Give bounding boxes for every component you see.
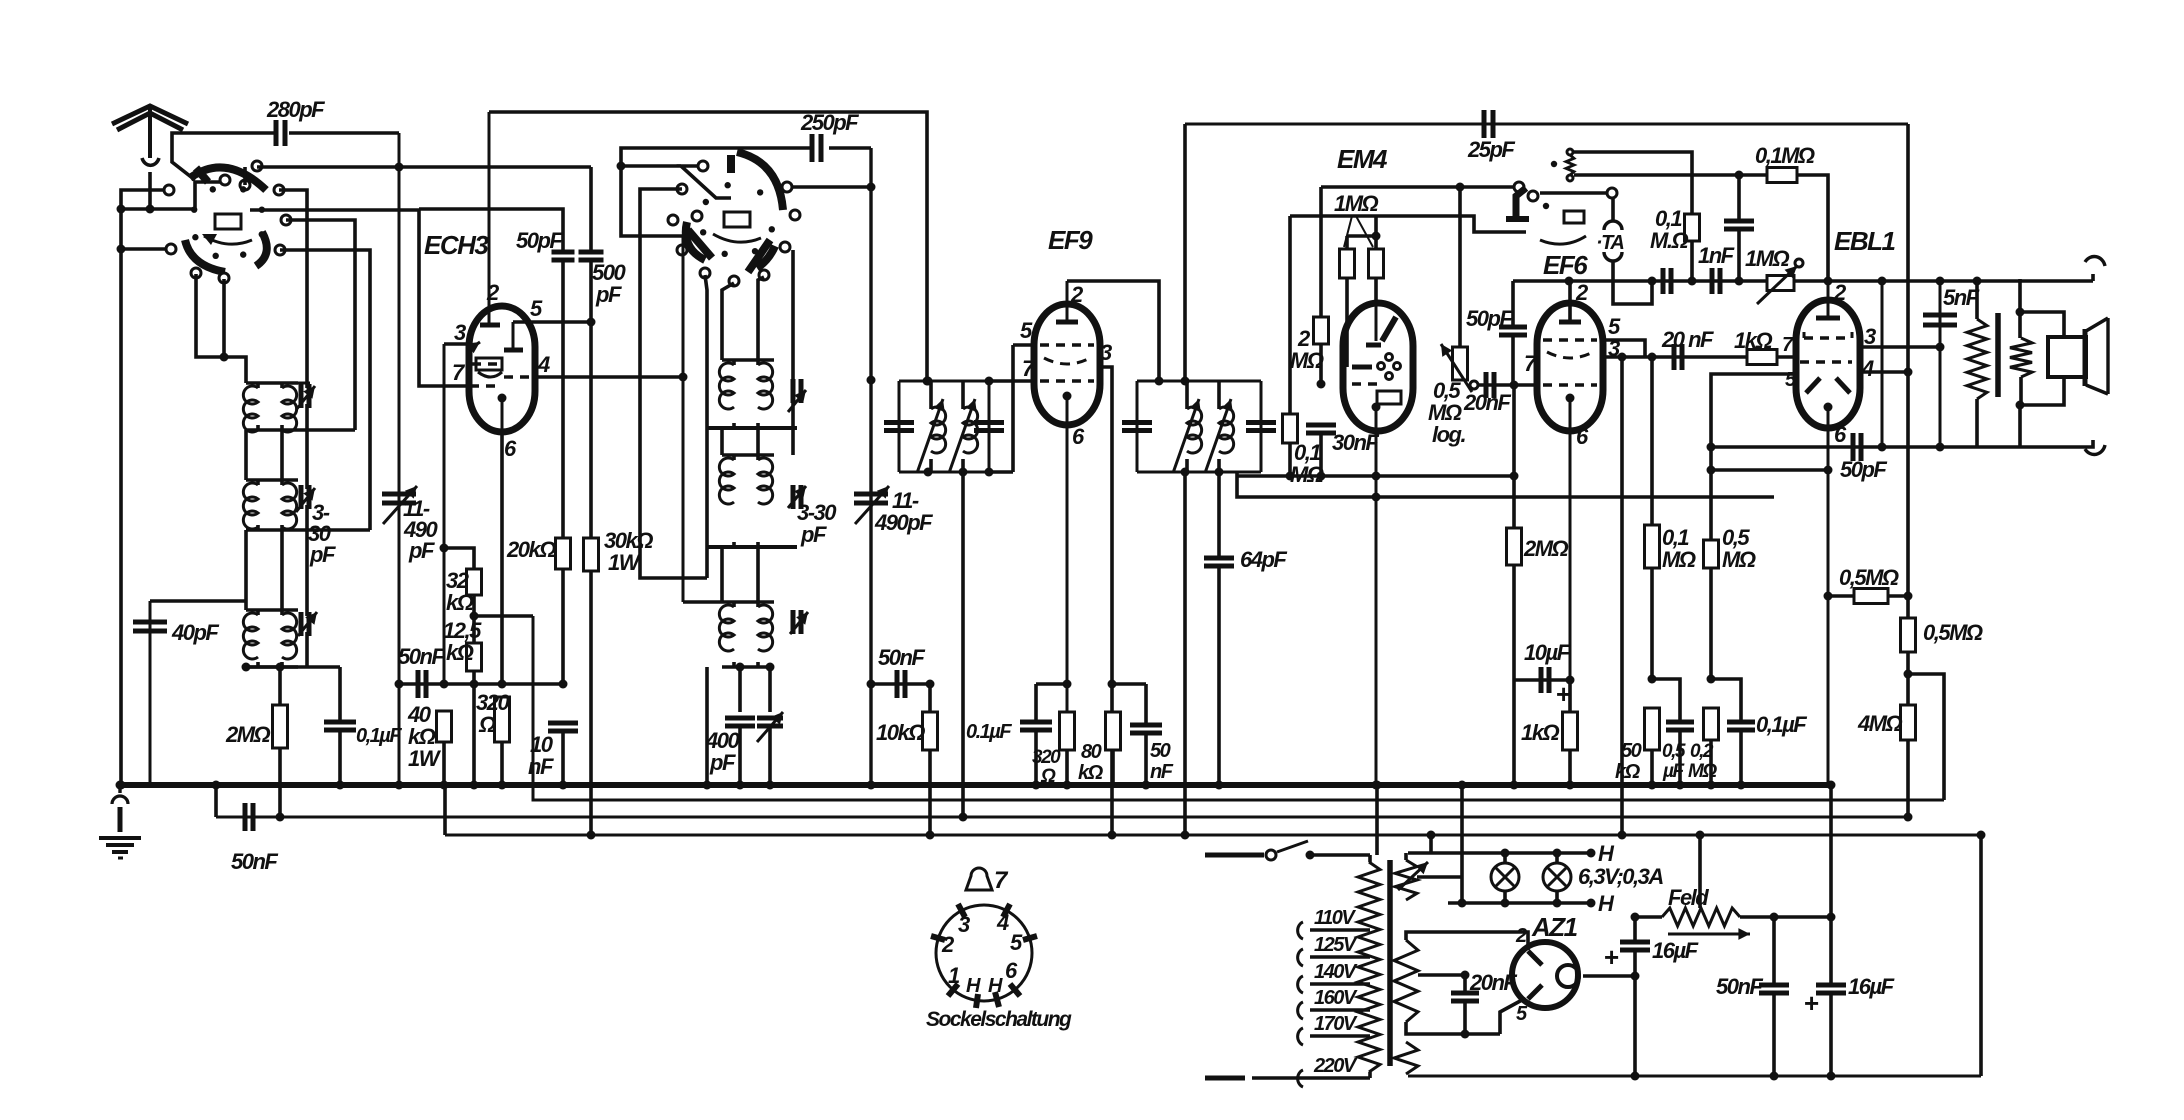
svg-text:1kΩ: 1kΩ bbox=[1521, 720, 1559, 745]
svg-text:0,1MΩ: 0,1MΩ bbox=[1755, 143, 1815, 168]
resistor 1M left bbox=[1340, 236, 1355, 367]
EBL1 pin5 wire bbox=[1707, 374, 1798, 540]
wire bus line 4 bbox=[445, 834, 1981, 837]
ECH3 pin 5 bbox=[504, 296, 596, 350]
svg-text:20kΩ: 20kΩ bbox=[506, 537, 556, 562]
transformer core bbox=[1387, 860, 1393, 1066]
capacitor 280pF bbox=[172, 97, 399, 180]
svg-text:4: 4 bbox=[537, 352, 550, 377]
wire S1 contact tap 1 bbox=[279, 190, 307, 388]
wire AF grid line bbox=[1513, 277, 2093, 286]
output transformer primary bbox=[1967, 281, 1987, 447]
svg-text:2MΩ: 2MΩ bbox=[225, 722, 271, 747]
svg-text:H: H bbox=[988, 975, 1003, 997]
resistor 80k bbox=[1078, 712, 1121, 785]
junction bus-L5 start bbox=[443, 785, 447, 835]
wire EM4 bottom rail bbox=[1237, 472, 1519, 481]
svg-text:30nF: 30nF bbox=[1332, 430, 1379, 455]
svg-text:170V: 170V bbox=[1314, 1013, 1358, 1035]
svg-text:2MΩ: 2MΩ bbox=[1523, 536, 1569, 561]
svg-text:250pF: 250pF bbox=[800, 110, 859, 135]
coil antenna L2 pair bbox=[243, 480, 298, 530]
capacitor 400pF bbox=[705, 667, 755, 790]
svg-text:EF9: EF9 bbox=[1048, 225, 1093, 255]
band switch S1 bbox=[164, 161, 291, 283]
svg-text:50: 50 bbox=[1150, 740, 1171, 762]
wire Feld to caps bbox=[1740, 913, 1836, 922]
EM4 ray electrodes bbox=[1378, 354, 1401, 380]
capacitor 16uF (2nd) bbox=[1804, 917, 1895, 1081]
capacitor 30nF bbox=[1306, 425, 1379, 481]
wire bus right ends bbox=[1827, 781, 1836, 790]
wire EM4 anode rail bbox=[1321, 182, 1524, 192]
wire ECH3 g4 line bbox=[440, 344, 449, 689]
svg-text:490pF: 490pF bbox=[874, 510, 933, 535]
tap 220V bbox=[1205, 1055, 1370, 1087]
external speaker hook bottom bbox=[1977, 440, 2105, 454]
heater tap arrow bbox=[1398, 862, 1428, 890]
tap 140V bbox=[1298, 961, 1370, 993]
capacitor 20nF (AZ1) bbox=[1451, 970, 1517, 1039]
wire switch stub left lower bbox=[117, 245, 172, 254]
ECH3 cathode pin 6 bbox=[498, 394, 518, 462]
wire S1 contact tap 2 bbox=[286, 220, 355, 430]
tube EBL1 label bbox=[1834, 226, 1896, 256]
svg-text:140V: 140V bbox=[1314, 961, 1358, 983]
wire EF9 pin3 out bbox=[1100, 367, 1117, 840]
HV bottom wire bbox=[1406, 1000, 1522, 1034]
wire EF9 pin5 down bbox=[1011, 345, 1015, 472]
resistor 40k 1W bbox=[407, 702, 452, 790]
EBL1 pin3 wire bbox=[1860, 343, 1945, 352]
svg-text:25pF: 25pF bbox=[1467, 137, 1515, 162]
svg-text:10µF: 10µF bbox=[1524, 640, 1571, 665]
svg-text:M.Ω: M.Ω bbox=[1650, 228, 1688, 253]
trimmer 3-30pF bbox=[296, 485, 336, 567]
resistor 1k (EF6 cath) bbox=[1521, 680, 1578, 790]
capacitor (fb) bbox=[1724, 175, 1754, 286]
resistor 32k bbox=[444, 548, 482, 621]
wire to L2 end bbox=[1908, 674, 1944, 800]
potentiometer 1M bbox=[1745, 246, 1803, 304]
resistor 0.1M (screen) bbox=[1650, 206, 1700, 286]
wire PSU bottom rail bbox=[1408, 831, 1986, 1077]
capacitor 5nF bbox=[1923, 281, 1980, 447]
svg-text:AZ1: AZ1 bbox=[1531, 912, 1578, 942]
wire antenna tap bbox=[117, 182, 223, 214]
wire 280pF node vertical bbox=[395, 133, 404, 790]
tube EF6 label bbox=[1543, 250, 1588, 280]
rectifier AZ1 bbox=[1512, 912, 1579, 1025]
svg-text:1: 1 bbox=[948, 963, 960, 988]
svg-text:0,5MΩ: 0,5MΩ bbox=[1923, 620, 1983, 645]
capacitor 1nF bbox=[1698, 243, 1735, 294]
svg-text:0,1µF: 0,1µF bbox=[1756, 712, 1807, 737]
wire trimmer column bbox=[305, 404, 309, 667]
svg-text:20nF: 20nF bbox=[1463, 390, 1511, 415]
speaker bbox=[2048, 318, 2108, 394]
capacitor 50nF (AVC) bbox=[398, 644, 561, 698]
EF6 pin 2 bbox=[1559, 280, 1589, 322]
svg-text:3: 3 bbox=[958, 912, 970, 937]
wire heater drop 1 bbox=[1427, 831, 1436, 854]
svg-text:4: 4 bbox=[1861, 356, 1874, 381]
svg-text:pF: pF bbox=[800, 522, 827, 547]
svg-text:EBL1: EBL1 bbox=[1834, 226, 1896, 256]
resistor 0.5M (diode 2) bbox=[1704, 525, 1756, 684]
EBL1 pin 2 bbox=[1816, 277, 1847, 319]
svg-text:40pF: 40pF bbox=[171, 620, 219, 645]
svg-text:0.1µF: 0.1µF bbox=[966, 721, 1012, 743]
EF6 pin7 dashes bbox=[1524, 351, 1597, 385]
resistor 1k (EBL1 grid) bbox=[1734, 328, 1797, 391]
wire EBL1 cath-470 bbox=[1711, 466, 1833, 475]
svg-text:MΩ: MΩ bbox=[1688, 761, 1717, 782]
svg-text:0,5: 0,5 bbox=[1662, 741, 1686, 762]
wire T1 bottom rail ext bbox=[985, 468, 1014, 477]
svg-text:1MΩ: 1MΩ bbox=[1334, 191, 1379, 216]
capacitor 0.1uF (AF) bbox=[1711, 679, 1807, 790]
variable capacitor 11-490pF bbox=[382, 486, 438, 563]
filament winding AZ1 bbox=[1394, 1042, 1418, 1074]
trimmer C L3 bbox=[298, 612, 317, 636]
resistor 0.2M bbox=[1688, 708, 1719, 790]
IF transformer T1 bbox=[884, 377, 1004, 477]
svg-text:pF: pF bbox=[408, 538, 435, 563]
ground bbox=[99, 781, 141, 859]
capacitor 40pF bbox=[133, 601, 246, 785]
ECH3 pin 2 bbox=[480, 112, 500, 325]
HV winding bbox=[1394, 940, 1470, 1022]
wire S1 contact right to ECH3 g1 bbox=[250, 210, 469, 386]
EBL1 grid dashes bbox=[1804, 324, 1876, 349]
antenna bbox=[112, 106, 188, 209]
svg-text:4MΩ: 4MΩ bbox=[1857, 711, 1903, 736]
svg-text:16µF: 16µF bbox=[1848, 974, 1895, 999]
svg-text:H: H bbox=[966, 975, 981, 997]
wire S2 left contact line bbox=[640, 189, 707, 578]
ECH3 grid dashes bbox=[472, 362, 502, 365]
capacitor 64pF bbox=[1204, 472, 1287, 790]
svg-text:50nF: 50nF bbox=[231, 849, 278, 874]
EBL1 pin7 dashes bbox=[1800, 360, 1852, 363]
wire S1 to grid line bbox=[257, 165, 591, 169]
EF9 grid dashes 5 bbox=[1013, 318, 1094, 345]
svg-text:16µF: 16µF bbox=[1652, 938, 1699, 963]
wire pin3 branch down bbox=[1618, 357, 1627, 840]
resistor 30k 1W bbox=[584, 528, 654, 840]
EBL1 cathode bbox=[1824, 403, 1848, 786]
wire osc feedback vertical bbox=[867, 148, 876, 790]
svg-text:nF: nF bbox=[1150, 761, 1174, 783]
trimmer 400pF parallel bbox=[757, 667, 783, 790]
svg-text:1nF: 1nF bbox=[1698, 243, 1735, 268]
svg-text:20 nF: 20 nF bbox=[1661, 327, 1714, 352]
capacitor TA coupling bbox=[1663, 268, 1671, 294]
EM4 deflector bbox=[1377, 391, 1401, 404]
trimmer C osc3 bbox=[790, 610, 808, 634]
wire L2 feed bbox=[474, 614, 533, 618]
resistor 4M bbox=[1857, 674, 1916, 822]
tube EBL1 envelope bbox=[1796, 300, 1860, 428]
svg-text:nF: nF bbox=[528, 754, 554, 779]
resistor 0.1M (fb) bbox=[1574, 143, 1828, 281]
svg-text:pF: pF bbox=[595, 282, 622, 307]
output transformer core bbox=[1995, 313, 2001, 397]
wire L2-L3 join bbox=[246, 530, 282, 610]
EF9 pin 7 dashes bbox=[1022, 356, 1094, 381]
EF6 pin5 stub bbox=[1603, 340, 1645, 357]
svg-text:2: 2 bbox=[1515, 925, 1527, 947]
resistor 50k bbox=[1615, 708, 1660, 790]
EF6 cathode bbox=[1566, 394, 1590, 685]
capacitor 0.1uF (EF9) bbox=[966, 684, 1067, 790]
svg-text:5nF: 5nF bbox=[1943, 285, 1980, 310]
svg-text:pF: pF bbox=[309, 542, 336, 567]
band switch S2 bbox=[668, 152, 800, 286]
capacitor 50nF (EF9 screen) bbox=[1112, 684, 1174, 790]
capacitor 20nF (EF6 grid) bbox=[1463, 372, 1538, 415]
EF9 cathode bbox=[1063, 392, 1086, 450]
EF6 grid dashes bbox=[1543, 314, 1621, 340]
EBL1 diode plates bbox=[1806, 356, 1874, 393]
svg-text:50: 50 bbox=[1621, 740, 1642, 762]
svg-text:MΩ: MΩ bbox=[1662, 547, 1696, 572]
capacitor 20nF (EBL1 grid) bbox=[1661, 327, 1714, 370]
capacitor 50nF (osc coupling) bbox=[871, 645, 935, 698]
external speaker hook top bbox=[2085, 257, 2105, 281]
svg-text:1W: 1W bbox=[608, 550, 642, 575]
EM4 cathode dot bbox=[1372, 403, 1381, 790]
trimmer C L1 bbox=[295, 383, 315, 410]
coil antenna L1 pair bbox=[196, 274, 298, 432]
capacitor 10uF bbox=[1514, 640, 1571, 709]
ECH3 pin 7 bbox=[452, 360, 500, 386]
capacitor 10nF bbox=[528, 723, 578, 790]
ECH3 pin 4 bbox=[504, 352, 688, 382]
wire heater drop 2 bbox=[1458, 781, 1467, 904]
EF6 suppressor bbox=[1547, 336, 1620, 361]
ECH3 hexode box bbox=[476, 358, 502, 377]
wire S2 contact to coil column bbox=[705, 275, 707, 428]
wire AVC line bbox=[1237, 472, 1774, 502]
wire T2 left branch to L5 bbox=[1181, 472, 1190, 840]
svg-text:1kΩ: 1kΩ bbox=[1734, 328, 1772, 353]
capacitor 50pF (EBL1 cath) bbox=[1711, 433, 1977, 482]
resistor 0.5M horizontal bbox=[1828, 565, 1908, 604]
tap 160V bbox=[1298, 987, 1370, 1019]
wire AZ1 output bbox=[1583, 972, 1640, 981]
svg-text:MΩ: MΩ bbox=[1290, 348, 1324, 373]
wire B+ rail top bbox=[1185, 123, 1908, 126]
svg-text:MΩ: MΩ bbox=[1722, 547, 1756, 572]
wire EF9 anode to T2 bbox=[1067, 281, 1164, 386]
resistor 2M&#937; bbox=[225, 667, 288, 822]
svg-text:64pF: 64pF bbox=[1240, 547, 1287, 572]
resistor 0.1M (EM4) bbox=[1283, 216, 1324, 487]
wire lamp bottom bbox=[1448, 899, 1591, 908]
wire L1-L2 join bbox=[246, 430, 282, 480]
EM4 grid dash bbox=[1352, 382, 1378, 385]
svg-text:0,2: 0,2 bbox=[1690, 741, 1714, 762]
resistor 320R bbox=[476, 432, 510, 790]
svg-text:·TA: ·TA bbox=[1596, 232, 1623, 254]
EBL1 pin4 wire bbox=[1860, 368, 1913, 377]
EM4 cathode bar bbox=[1352, 365, 1372, 370]
tap 110V bbox=[1298, 907, 1370, 939]
svg-text:log.: log. bbox=[1432, 422, 1465, 447]
wire bus line 3 (from 50nF) bbox=[216, 816, 1908, 819]
coil antenna L3 pair bbox=[243, 610, 298, 667]
svg-text:3: 3 bbox=[1100, 340, 1112, 365]
capacitor 500pF bbox=[579, 167, 627, 538]
fuse/choke EF6 anode bbox=[1566, 149, 1574, 181]
svg-text:Feld: Feld bbox=[1668, 885, 1709, 910]
capacitor 50nF (antenna) bbox=[231, 803, 278, 874]
tube EF9 envelope bbox=[1034, 304, 1100, 425]
wire fb vertical 1882 bbox=[1881, 281, 1884, 447]
capacitor 0.5uF bbox=[1652, 679, 1694, 790]
output transformer secondary bbox=[2010, 279, 2064, 447]
svg-text:+: + bbox=[1604, 942, 1619, 972]
svg-text:3: 3 bbox=[454, 320, 466, 345]
wire T1 secondary to EF9 g bbox=[985, 377, 1035, 386]
wire B+ right vertical bbox=[1829, 785, 1833, 917]
wire EF6 screen route bbox=[1573, 152, 1692, 214]
tube ECH3 label bbox=[424, 230, 489, 260]
resistor 2M (EF6) bbox=[1507, 476, 1569, 790]
wire osc L6 bottom to bus bbox=[703, 663, 775, 790]
switch radio/TA flag bbox=[1506, 161, 1586, 244]
wire S1 bottom contact to coils bbox=[0, 0, 1, 1]
wire EF6 pin3 line bbox=[1603, 353, 1749, 362]
wire mains feed vertical bbox=[1373, 781, 1382, 856]
capacitor 50pF (osc grid) bbox=[419, 209, 575, 538]
resistor 20k bbox=[506, 537, 571, 689]
trimmer 3-30pF osc bbox=[788, 485, 837, 547]
wire ECH3 anode rail bbox=[489, 112, 932, 386]
svg-text:50nF: 50nF bbox=[398, 644, 445, 669]
wire main chassis bus bbox=[120, 782, 1831, 788]
svg-text:4: 4 bbox=[996, 910, 1009, 935]
wire S1 contact tap 3 bbox=[280, 250, 370, 530]
wire S2 right contact line bbox=[791, 183, 876, 192]
svg-text:0,5MΩ: 0,5MΩ bbox=[1839, 565, 1899, 590]
trimmer C osc1 bbox=[788, 379, 806, 412]
capacitor 0.1uF bbox=[324, 667, 402, 790]
svg-text:50nF: 50nF bbox=[878, 645, 925, 670]
wire coil rail extensions bbox=[298, 430, 370, 530]
svg-text:50pF: 50pF bbox=[1840, 457, 1887, 482]
svg-text:kΩ: kΩ bbox=[446, 640, 474, 665]
coil osc L4 pair bbox=[719, 277, 774, 428]
svg-text:50pF: 50pF bbox=[516, 228, 563, 253]
wire T1 mid vertical bbox=[959, 472, 968, 822]
svg-text:+: + bbox=[1804, 988, 1819, 1018]
svg-text:pF: pF bbox=[709, 750, 736, 775]
svg-text:10kΩ: 10kΩ bbox=[876, 720, 925, 745]
wire AZ1 bottom bbox=[0, 0, 1, 1]
wire lamp top bbox=[1408, 849, 1591, 858]
wire EM4 AVC rail bbox=[1290, 216, 1526, 232]
svg-text:80: 80 bbox=[1081, 741, 1102, 763]
svg-text:1MΩ: 1MΩ bbox=[1745, 246, 1790, 271]
svg-text:kΩ: kΩ bbox=[446, 590, 474, 615]
lamp label bbox=[1578, 841, 1663, 916]
svg-text:6,3V;0,3A: 6,3V;0,3A bbox=[1578, 864, 1663, 889]
svg-text:EF6: EF6 bbox=[1543, 250, 1588, 280]
capacitor 50pF (EF6 fb) bbox=[1466, 281, 1527, 385]
capacitor 50nF (PSU) bbox=[1716, 917, 1789, 1081]
wire L3 bottom rail links bbox=[242, 663, 341, 672]
svg-text:kΩ: kΩ bbox=[1078, 762, 1104, 784]
capacitor 250pF bbox=[621, 110, 871, 236]
capacitor 16uF (1st) bbox=[1604, 917, 1699, 1081]
wire antenna input line bbox=[117, 190, 170, 790]
wire osc coil columns bbox=[707, 428, 797, 602]
dial lamp 2 bbox=[1543, 853, 1571, 903]
EM4 target bbox=[1366, 303, 1396, 345]
socket legend bbox=[926, 867, 1072, 1031]
resistor 12.5k bbox=[443, 616, 482, 790]
svg-text:Ω: Ω bbox=[478, 712, 496, 737]
field coil Feld bbox=[1631, 831, 1751, 940]
tube EM4 label bbox=[1337, 144, 1388, 174]
wire S1 contact tap 4 bbox=[243, 167, 247, 185]
tube EF9 label bbox=[1048, 225, 1093, 255]
svg-text:kΩ: kΩ bbox=[1615, 761, 1641, 783]
tube ECH3 envelope bbox=[469, 306, 535, 432]
dial lamp 1 bbox=[1491, 853, 1519, 903]
EF9 suppressor dashes bbox=[1044, 340, 1112, 365]
heater winding bbox=[1395, 853, 1462, 900]
IF transformer T2 bbox=[1122, 377, 1276, 477]
svg-text:µF: µF bbox=[1662, 761, 1685, 782]
label 1M pointers bbox=[1334, 191, 1379, 247]
coil osc L6 pair bbox=[683, 602, 774, 667]
variable capacitor 11-490pF osc bbox=[854, 486, 933, 535]
wire B+ to T2 bbox=[1183, 124, 1187, 381]
wire EF9 cathode down bbox=[1063, 431, 1072, 790]
tap 170V bbox=[1298, 1013, 1370, 1045]
wire bus line 2 bbox=[533, 616, 1944, 800]
transformer primary bbox=[1358, 855, 1380, 1078]
resistor 0.5M vertical bbox=[1901, 591, 1983, 679]
svg-text:Ω: Ω bbox=[1040, 766, 1056, 787]
svg-text:125V: 125V bbox=[1314, 934, 1358, 956]
svg-text:50nF: 50nF bbox=[1716, 974, 1763, 999]
svg-text:160V: 160V bbox=[1314, 987, 1358, 1009]
potentiometer 0.5M log bbox=[1428, 187, 1478, 447]
wire osc grid vertical bbox=[682, 236, 685, 602]
resistor 320R (EF9) bbox=[1032, 712, 1075, 787]
junction bus-L4 start bbox=[212, 781, 221, 818]
resistor 10k bbox=[876, 684, 938, 840]
svg-text:Sockelschaltung: Sockelschaltung bbox=[926, 1008, 1072, 1031]
svg-text:0,1µF: 0,1µF bbox=[356, 725, 402, 747]
svg-text:EM4: EM4 bbox=[1337, 144, 1388, 174]
svg-text:50pF: 50pF bbox=[1466, 306, 1513, 331]
tube EM4 envelope bbox=[1343, 303, 1413, 431]
capacitor 25pF bbox=[1467, 110, 1515, 162]
wire right B+ vertical bbox=[1904, 124, 1913, 601]
TA input hooks bbox=[1540, 188, 1657, 304]
EF9 pin 2 bbox=[1056, 281, 1084, 322]
wire S2 contact to osc grid bbox=[617, 162, 732, 199]
wire EF6 grid leak bbox=[1512, 385, 1516, 476]
ECH3 pin 3 bbox=[444, 320, 480, 353]
svg-text:1W: 1W bbox=[408, 746, 442, 771]
